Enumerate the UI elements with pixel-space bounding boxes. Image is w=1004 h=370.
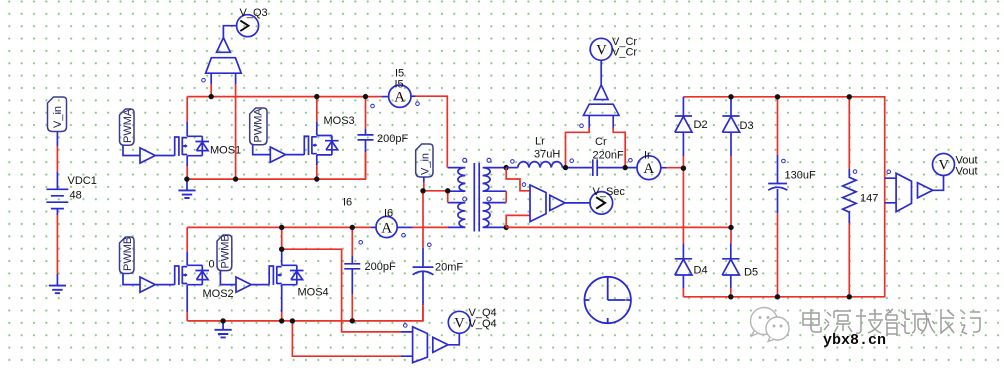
buffer V_Sec	[550, 195, 565, 210]
ammeter Ir	[637, 156, 661, 180]
voltage sensor V_Sec (trapezoid)	[530, 185, 546, 222]
label PWMA (MOS3)	[250, 108, 267, 145]
voltmeter V_Cr	[590, 38, 612, 60]
MOSFET MOS3	[316, 97, 318, 122]
MOSFET MOS4	[281, 227, 283, 252]
svg-text:VDC1: VDC1	[68, 175, 97, 187]
wire MOS1 source to rail	[186, 165, 188, 179]
gate buffer (MOS1)	[140, 148, 155, 163]
ground (rail 320.9)	[222, 321, 224, 330]
junction dots output	[775, 94, 852, 299]
voltmeter V_Q4	[448, 311, 470, 333]
svg-text:37uH: 37uH	[534, 149, 560, 161]
label PWMA (MOS1)	[120, 108, 135, 145]
wire V_Q3 sensor legs	[210, 84, 212, 97]
junction dots top-left rails	[184, 94, 368, 182]
svg-text:220nF: 220nF	[593, 150, 624, 162]
logo bubbles	[751, 308, 790, 342]
label V_in (mid)	[416, 144, 433, 177]
wire buffer to voltmeter V_Q4	[448, 334, 459, 345]
ground (battery)	[49, 286, 66, 294]
diode D3	[730, 97, 732, 116]
wire left windings series link	[447, 191, 449, 202]
ammeter I6	[376, 216, 397, 237]
char dian	[803, 309, 821, 332]
battery VDC1 48	[46, 189, 68, 208]
svg-text:PWMA: PWMA	[122, 108, 134, 143]
logo chinese text	[803, 309, 980, 336]
svg-text:PWMB: PWMB	[122, 237, 134, 271]
svg-text:MOS2: MOS2	[203, 288, 234, 300]
char neng	[886, 309, 910, 336]
wire top rail left (red)	[187, 96, 381, 98]
MOSFET MOS1	[175, 136, 209, 156]
char ji2	[961, 311, 980, 334]
wire D3/D5 mid column (red)	[730, 227, 732, 243]
wire sec return rail (red)	[506, 226, 731, 228]
svg-text:130uF: 130uF	[785, 170, 816, 182]
capacitor 20mF	[422, 191, 424, 248]
svg-text:PWMB: PWMB	[220, 234, 232, 268]
svg-text:V_Q3: V_Q3	[240, 7, 268, 19]
junction dots rectifier	[681, 94, 734, 299]
label PWMB (MOS4)	[217, 234, 232, 270]
wire sec bottom tap (red)	[506, 215, 530, 227]
wire MOS2 source	[186, 312, 188, 321]
wire V_Cr sensor right leg	[613, 128, 625, 168]
svg-text:A: A	[394, 90, 405, 106]
transformer right-bottom winding	[483, 203, 507, 228]
voltage sensor V_Cr	[583, 85, 619, 129]
svg-text:V_Cr: V_Cr	[612, 47, 637, 59]
svg-text:MOS3: MOS3	[324, 115, 355, 127]
wire PWMA2 to buffer	[253, 145, 271, 155]
capacitor 200pF (mid)	[351, 227, 353, 256]
wire buffer to voltmeter Vout	[933, 176, 944, 191]
transformer core	[474, 163, 479, 232]
svg-text:200pF: 200pF	[377, 133, 408, 145]
transformer right-top winding	[483, 168, 507, 192]
label V_in (left)	[48, 97, 67, 132]
svg-text:V_in: V_in	[52, 106, 64, 128]
svg-text:I5: I5	[395, 79, 404, 91]
svg-text:V: V	[454, 316, 465, 332]
transformer left-top winding	[448, 168, 466, 192]
wire Ir to rectifier	[661, 167, 667, 169]
wire sec top tap (red)	[506, 168, 530, 191]
wire rail 227 (red)	[187, 226, 371, 228]
wire I5 to transformer	[411, 95, 416, 97]
gate buffer (MOS4)	[236, 277, 251, 292]
wire PWMB to buffer	[123, 274, 140, 285]
wire Cr to Ir	[597, 167, 637, 169]
wire buffer to MOS1 gate	[155, 155, 175, 157]
svg-text:200pF: 200pF	[365, 261, 396, 273]
wire right windings series link	[505, 191, 507, 202]
svg-text:48: 48	[70, 190, 82, 202]
voltmeter Vout	[933, 154, 955, 176]
wire V_Q4 sensor bottom leg (red)	[292, 321, 401, 356]
wire buffer to MOS4 gate	[251, 284, 269, 286]
wire I6 right to transformer	[397, 226, 412, 228]
diode D4	[682, 243, 684, 258]
label PWMB (MOS2)	[120, 237, 135, 274]
svg-text:Cr: Cr	[595, 136, 607, 148]
svg-text:I6: I6	[384, 208, 393, 220]
svg-text:ybx8.cn: ybx8.cn	[823, 332, 886, 349]
node o-mark V_Q3	[202, 78, 206, 82]
svg-text:D4: D4	[694, 265, 708, 277]
char ji	[856, 309, 883, 333]
gate buffer (MOS3)	[270, 147, 285, 162]
gate buffer (MOS2)	[140, 277, 155, 292]
wire PWMB2 to buffer	[220, 271, 236, 285]
wire D2/D4 mid column (red)	[682, 168, 684, 243]
wire buffer to voltmeter V_Sec	[565, 202, 590, 204]
wire battery to ground	[56, 209, 58, 215]
wire mid rail (red)	[187, 150, 366, 179]
wire Lr to Cr	[562, 167, 592, 169]
svg-text:V_in: V_in	[420, 153, 432, 175]
svg-text:147: 147	[860, 193, 878, 205]
svg-text:Vout: Vout	[956, 166, 978, 178]
wire node to transformer (red)	[423, 190, 448, 192]
voltage sensor V_Q4 legs	[401, 332, 413, 356]
svg-text:MOS4: MOS4	[298, 287, 329, 299]
svg-text:D2: D2	[694, 119, 708, 131]
wire transformer to Lr	[506, 167, 518, 169]
MOSFET MOS2	[175, 265, 209, 285]
junction dots bottom-left	[220, 225, 355, 324]
diode D5	[730, 243, 732, 258]
wire V_Cr sensor left leg	[566, 128, 590, 168]
svg-text:Ir: Ir	[644, 150, 651, 162]
wire rail 320.9 (red)	[187, 306, 423, 321]
wire MOS2 drain	[186, 227, 188, 252]
svg-text:V: V	[596, 43, 607, 59]
transformer polarity o-marks	[463, 158, 491, 201]
wire PWMA to buffer	[123, 145, 140, 155]
char cheng	[912, 311, 935, 334]
svg-text:I6: I6	[343, 197, 352, 209]
buffer Vout	[918, 183, 933, 198]
diode D2	[682, 97, 684, 116]
voltage sensor Vout (trapezoid)	[896, 173, 911, 212]
wire V_in label to battery	[56, 132, 58, 147]
wire buffer to MOS3 gate	[286, 154, 305, 156]
wire buffer to MOS2 gate	[155, 284, 175, 286]
ground (mid rail)	[186, 179, 188, 190]
svg-text:A: A	[381, 221, 392, 237]
voltage sensor Vout legs	[885, 178, 896, 203]
wire sensor to voltmeter V_Cr	[600, 60, 602, 85]
voltage sensor V_Q4 (trapezoid)	[413, 327, 428, 363]
svg-text:0: 0	[209, 259, 215, 271]
capacitor 200pF (top)	[365, 97, 367, 129]
svg-text:A: A	[643, 161, 654, 177]
wire MOS4 drain tap to V_Q4 sensor (red)	[282, 249, 401, 332]
transformer left-bottom winding	[448, 203, 466, 228]
svg-text:Lr: Lr	[535, 136, 545, 148]
junction dots tank	[563, 165, 628, 170]
wire V_in label down to node	[423, 177, 425, 182]
voltmeter V_Sec	[590, 192, 613, 215]
inductor Lr 37uH	[518, 162, 563, 168]
junction dots transformer	[420, 165, 509, 230]
wire MOS1 drain	[186, 97, 188, 122]
resistor 147	[848, 97, 850, 169]
voltmeter V_Q3	[237, 15, 259, 37]
svg-text:V_Q4: V_Q4	[469, 318, 497, 330]
svg-text:D5: D5	[744, 267, 758, 279]
buffer V_Q4	[433, 337, 448, 352]
voltage sensor V_Q3	[206, 38, 242, 85]
svg-text:20mF: 20mF	[435, 262, 463, 274]
svg-text:MOS1: MOS1	[210, 145, 241, 157]
svg-text:PWMA: PWMA	[253, 108, 265, 143]
char yuan	[824, 311, 852, 333]
wire sensor to voltmeter V_Q3	[223, 26, 236, 38]
svg-text:V: V	[939, 158, 950, 174]
capacitor Cr 220nF	[593, 159, 597, 176]
svg-text:D3: D3	[740, 120, 754, 132]
wire top rail right (red)	[683, 97, 884, 297]
capacitor 130uF	[777, 97, 779, 155]
svg-text:V_Sec: V_Sec	[593, 186, 626, 198]
char chang	[941, 309, 954, 334]
ammeter I5	[389, 85, 411, 107]
